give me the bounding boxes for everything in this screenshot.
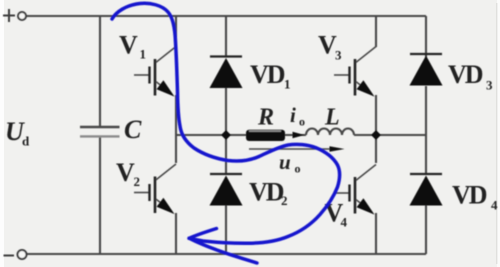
svg-text:2: 2: [134, 174, 141, 189]
svg-text:VD: VD: [452, 181, 487, 210]
svg-text:o: o: [299, 115, 305, 129]
svg-text:d: d: [22, 134, 30, 149]
svg-text:4: 4: [491, 198, 498, 213]
svg-text:2: 2: [281, 193, 288, 208]
svg-text:3: 3: [335, 48, 342, 63]
svg-text:VD: VD: [448, 60, 483, 89]
svg-text:L: L: [324, 105, 340, 131]
svg-text:o: o: [295, 162, 301, 176]
svg-text:3: 3: [486, 78, 493, 93]
svg-text:VD: VD: [249, 178, 284, 207]
svg-text:1: 1: [140, 47, 147, 62]
svg-text:V: V: [119, 31, 138, 60]
svg-text:i: i: [290, 103, 296, 127]
svg-text:u: u: [279, 150, 291, 174]
svg-text:1: 1: [284, 77, 291, 92]
svg-text:V: V: [116, 158, 135, 187]
svg-text:C: C: [124, 115, 142, 144]
svg-text:4: 4: [341, 215, 348, 230]
svg-text:R: R: [257, 105, 274, 131]
svg-text:VD: VD: [250, 60, 285, 89]
